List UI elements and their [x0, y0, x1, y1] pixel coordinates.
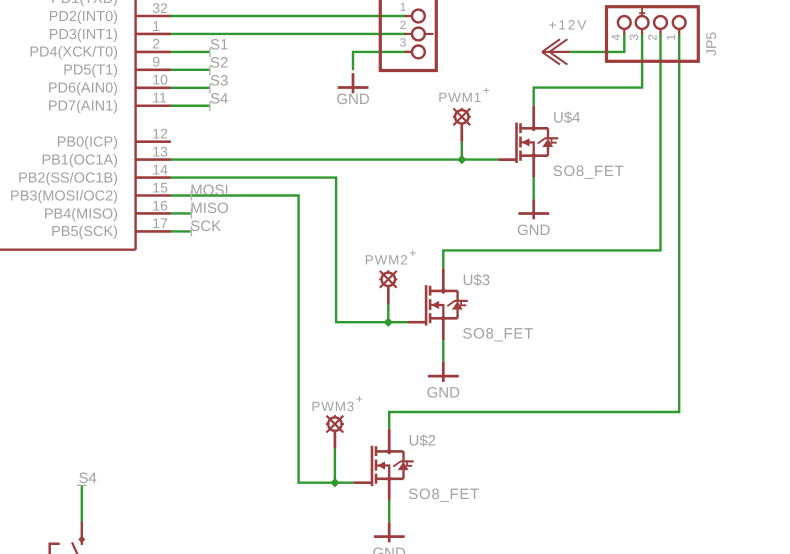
wire U$4 source to GND [533, 178, 535, 200]
svg-text:3: 3 [400, 36, 407, 50]
svg-text:PWM2: PWM2 [365, 253, 409, 268]
svg-text:PB1(OC1A): PB1(OC1A) [41, 152, 118, 168]
wire net SCK [171, 230, 191, 232]
pin 12 stub [136, 140, 171, 143]
svg-text:S2: S2 [210, 54, 228, 71]
wire net S2 [171, 69, 210, 71]
JP5 pin3 top stub [639, 7, 645, 16]
ground U$2 [374, 522, 405, 542]
switch contact dot [78, 536, 85, 544]
pin 10 stub [136, 87, 171, 90]
switch lever [72, 542, 78, 554]
wire JP5 pin1 to U$2 drain [389, 34, 679, 429]
JP5 pin stubs [624, 29, 679, 34]
wire net S4 to switch [81, 485, 83, 521]
svg-text:S4: S4 [79, 470, 97, 487]
wire PWM1 testpoint drop [461, 142, 463, 160]
PWM2 testpoint lead [387, 286, 390, 304]
tick SCK [190, 226, 192, 236]
wire pin15 to U$2 gate (MOSI/PWM3 net) [171, 196, 354, 483]
svg-text:PD1(TXD): PD1(TXD) [51, 0, 118, 7]
svg-text:PD7(AIN1): PD7(AIN1) [48, 99, 118, 115]
junction PWM1 [457, 155, 466, 164]
svg-text:GND: GND [427, 384, 461, 401]
svg-text:PD3(INT1): PD3(INT1) [49, 27, 118, 43]
tick S3 [209, 83, 211, 93]
svg-text:U$4: U$4 [553, 110, 581, 127]
junction PWM3 [330, 478, 339, 487]
svg-text:1: 1 [152, 18, 160, 34]
connector SV1 pad 3 [412, 46, 425, 59]
svg-text:PB0(ICP): PB0(ICP) [57, 134, 118, 150]
tick S1 [209, 47, 211, 57]
IC pin stubs [136, 16, 171, 231]
svg-text:PB4(MISO): PB4(MISO) [44, 206, 118, 222]
+12V supply arrow [542, 39, 570, 64]
wire net S1 [171, 51, 210, 53]
svg-text:+: + [409, 246, 416, 260]
wire pin1 to connector pin2 [171, 33, 408, 35]
transistor U$4 [498, 106, 558, 178]
tick S2 [209, 65, 211, 75]
svg-text:14: 14 [152, 161, 168, 177]
svg-text:JP5: JP5 [703, 32, 719, 56]
wire pin32 to connector pin1 [171, 15, 408, 17]
svg-text:GND: GND [517, 222, 551, 239]
svg-text:4: 4 [609, 34, 623, 41]
svg-text:U$2: U$2 [409, 433, 437, 450]
svg-text:32: 32 [152, 0, 168, 16]
ground U$3 [428, 362, 459, 382]
svg-text:+: + [356, 392, 363, 406]
pin 32 stub [136, 15, 171, 18]
switch S4 fragment [50, 522, 82, 554]
wire pin13 to U$4 gate (PWM1 net) [171, 158, 499, 160]
pin 17 stub [136, 230, 171, 233]
pin 9 stub [136, 69, 171, 72]
svg-text:PD5(T1): PD5(T1) [63, 63, 118, 79]
svg-text:MOSI: MOSI [190, 182, 228, 199]
svg-text:17: 17 [152, 215, 168, 231]
svg-text:2: 2 [645, 34, 659, 41]
ground U$4 [518, 199, 549, 219]
pin 16 stub [136, 212, 171, 215]
svg-text:S4: S4 [210, 90, 228, 107]
svg-text:GND: GND [373, 545, 407, 554]
ground near connector [338, 73, 369, 93]
svg-text:+12V: +12V [549, 18, 589, 33]
connector JP5 box [607, 7, 699, 62]
tick MISO [190, 208, 192, 218]
testpoint PWM1 [453, 108, 471, 126]
transistor U$2 [354, 429, 414, 501]
connector SV1 pad 1 [412, 10, 425, 23]
svg-text:PB5(SCK): PB5(SCK) [51, 224, 118, 240]
connector SV1 pin stubs [405, 16, 434, 52]
pin 14 stub [136, 176, 171, 179]
wire PWM2 testpoint drop [387, 305, 389, 323]
PWM1 testpoint lead [460, 124, 463, 142]
switch lead [81, 522, 83, 545]
wire net S3 [171, 87, 210, 89]
svg-text:PD6(AIN0): PD6(AIN0) [48, 81, 118, 97]
wire PWM3 testpoint drop [334, 449, 336, 483]
svg-text:PWM1: PWM1 [438, 90, 482, 105]
svg-text:16: 16 [152, 197, 168, 213]
switch body corner [50, 544, 60, 554]
pin 2 stub [136, 51, 171, 54]
pin 1 stub [136, 33, 171, 36]
svg-text:PB3(MOSI/OC2): PB3(MOSI/OC2) [10, 188, 118, 204]
svg-text:PD4(XCK/T0): PD4(XCK/T0) [29, 45, 118, 61]
PWM3 testpoint lead [334, 431, 337, 449]
pin 11 stub [136, 104, 171, 107]
svg-text:S1: S1 [210, 36, 228, 53]
svg-text:SO8_FET: SO8_FET [408, 486, 480, 503]
wire pin14 to U$3 gate (PWM2 net) [171, 178, 409, 323]
svg-text:PB2(SS/OC1B): PB2(SS/OC1B) [18, 170, 118, 186]
pin 15 stub [136, 194, 171, 197]
tick S4 [209, 101, 211, 111]
wire JP5 pin2 to U$3 drain [443, 34, 660, 269]
svg-text:U$3: U$3 [463, 272, 491, 289]
testpoint PWM3 [326, 415, 344, 433]
tick S4 switch [77, 484, 87, 486]
net label ticks [77, 47, 210, 485]
wire +12V to JP5 pin4 [570, 34, 624, 52]
svg-text:PWM3: PWM3 [311, 399, 355, 414]
svg-text:1: 1 [400, 0, 407, 14]
svg-text:MISO: MISO [190, 200, 228, 217]
connector SV1 pad 2 [412, 28, 425, 41]
svg-text:SCK: SCK [190, 218, 221, 235]
svg-text:SO8_FET: SO8_FET [553, 163, 625, 180]
svg-text:2: 2 [152, 36, 160, 52]
svg-text:GND: GND [336, 91, 370, 108]
JP5 pad 4 [618, 16, 631, 29]
svg-text:10: 10 [152, 72, 168, 88]
JP5 pad 2 [654, 16, 667, 29]
svg-text:PD2(INT0): PD2(INT0) [49, 9, 118, 25]
wire net S4 [171, 105, 210, 107]
wire net MISO [171, 212, 191, 214]
svg-text:9: 9 [152, 54, 160, 70]
pin 13 stub [136, 158, 171, 161]
svg-text:11: 11 [152, 90, 167, 106]
svg-text:S3: S3 [210, 72, 228, 89]
tick MOSI [190, 191, 192, 201]
testpoint PWM2 [379, 270, 397, 288]
wire U$2 source to GND [388, 501, 390, 523]
svg-text:15: 15 [152, 179, 168, 195]
svg-text:SO8_FET: SO8_FET [462, 326, 534, 343]
svg-text:+: + [483, 84, 490, 98]
wire connector pin3 to GND [353, 52, 411, 70]
IC U1 body edge [0, 0, 136, 250]
svg-text:3: 3 [627, 34, 641, 41]
JP5 pad 3 [636, 16, 649, 29]
junction PWM2 [384, 318, 393, 327]
svg-text:2: 2 [400, 18, 407, 32]
svg-text:13: 13 [152, 143, 168, 159]
transistor U$3 [408, 268, 468, 340]
svg-text:1: 1 [664, 34, 678, 41]
JP5 pad 1 [673, 16, 686, 29]
connector SV1 box [380, 0, 436, 71]
wire JP5 pin3 to U$4 drain [534, 34, 642, 106]
wire U$3 source to GND [442, 340, 444, 362]
svg-text:12: 12 [152, 125, 168, 141]
